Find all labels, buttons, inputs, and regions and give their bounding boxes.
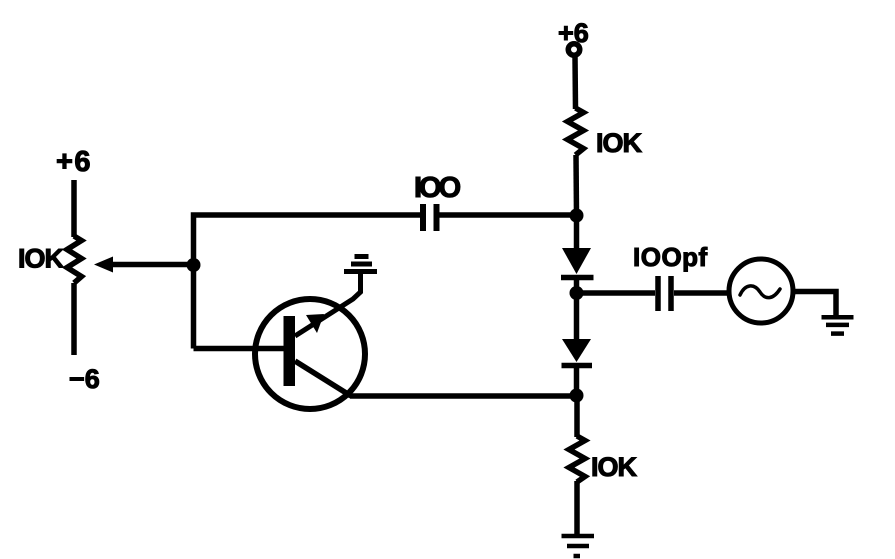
wire R2 to ground bbox=[574, 481, 580, 536]
svg-text:IOK: IOK bbox=[591, 452, 638, 482]
svg-text:IOK: IOK bbox=[18, 244, 65, 274]
transistor Q1 emitter lead bbox=[295, 272, 361, 336]
transistor Q1 emitter arrowhead bbox=[306, 314, 324, 333]
transistor Q1 circle bbox=[255, 299, 365, 409]
node B junction dot bbox=[570, 389, 584, 403]
source V1 sine bbox=[740, 286, 780, 298]
wire base lead bbox=[194, 346, 285, 352]
ground right bbox=[822, 315, 854, 320]
wire collector to node B bbox=[350, 393, 577, 399]
wire node C to capacitor C2 bbox=[577, 290, 656, 296]
wire C1 left plate to left rail corner and down bbox=[194, 215, 421, 349]
svg-text:+6: +6 bbox=[56, 146, 92, 178]
wire node A to diode D1 bbox=[574, 215, 580, 250]
capacitor C1 100 bbox=[434, 204, 440, 231]
ground bottom bbox=[562, 534, 595, 539]
wiper arrowhead bbox=[94, 257, 113, 273]
wire node A to capacitor C1 right plate bbox=[439, 212, 577, 218]
terminal circle +6 bbox=[568, 44, 580, 56]
diode D2 bbox=[562, 339, 591, 362]
wire D2 to node B bbox=[574, 366, 580, 396]
svg-text:−6: −6 bbox=[69, 364, 100, 394]
ground above transistor bbox=[344, 269, 377, 274]
wire +6 to potentiometer bbox=[71, 180, 77, 237]
transistor Q1 base bar bbox=[284, 316, 296, 386]
transistor Q1 collector lead bbox=[295, 361, 351, 396]
wire node B to R2 bbox=[574, 396, 580, 437]
svg-text:IOK: IOK bbox=[596, 128, 643, 158]
potentiometer P1 10K bbox=[67, 236, 82, 283]
node junction dot at wiper branch bbox=[187, 258, 201, 272]
svg-text:IOO: IOO bbox=[414, 172, 461, 204]
resistor R1 10K bbox=[568, 108, 584, 155]
wire wiper arrow line bbox=[111, 262, 194, 268]
capacitor C2 100pf bbox=[655, 276, 661, 311]
wire R1 to node A bbox=[573, 155, 579, 215]
source V1 circle bbox=[729, 259, 793, 323]
wire C2 to source V1 bbox=[674, 290, 728, 296]
svg-text:IOOpf: IOOpf bbox=[633, 242, 708, 272]
node C junction dot bbox=[570, 286, 584, 300]
wire V1 to ground bbox=[795, 292, 836, 318]
wire node C to diode D2 bbox=[574, 293, 580, 341]
diode D1 bbox=[562, 248, 591, 274]
node A junction dot bbox=[570, 209, 584, 223]
resistor R2 10K bbox=[569, 436, 585, 482]
wire potentiometer to -6 bbox=[71, 283, 77, 355]
wire D1 to node C bbox=[574, 278, 580, 293]
wire terminal to R1 bbox=[572, 56, 578, 109]
